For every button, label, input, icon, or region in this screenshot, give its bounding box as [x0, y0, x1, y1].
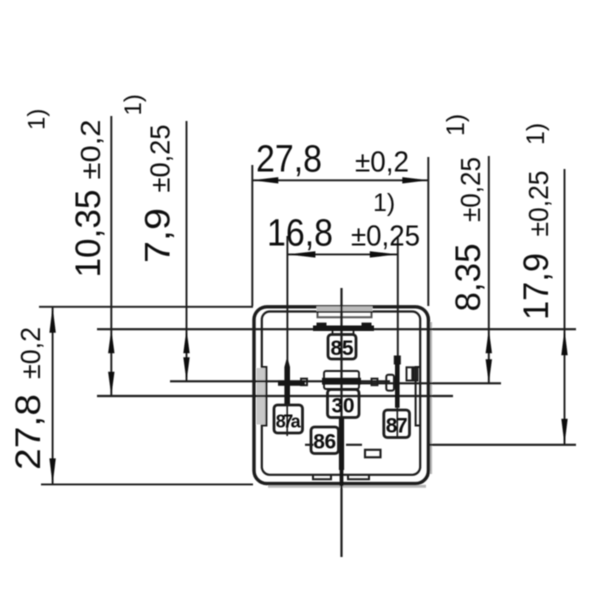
dim 17,9: up arrow	[561, 329, 567, 355]
terminal 87 small rect a	[407, 367, 413, 380]
terminal 87a label box	[274, 405, 303, 433]
dim 16,8: left extension line	[286, 236, 288, 361]
horizontal centerline y=396 (10,35)	[97, 395, 453, 397]
terminal 85 bar right tab	[362, 323, 372, 327]
terminal 86 blade	[339, 418, 344, 471]
horizontal reference line y=329 (85 blade line)	[97, 328, 576, 330]
svg-text:±0,25: ±0,25	[523, 171, 554, 237]
dim 16,8: dimension line	[287, 253, 397, 255]
vertical centerline	[340, 288, 342, 557]
dim 10,35: down arrow	[108, 372, 114, 396]
terminal 85 bar left tab	[317, 323, 327, 327]
dim 27,8 left: top extension line	[39, 306, 253, 308]
dim 7,9: up arrow	[183, 329, 189, 353]
dim 27,8 left: dimension line	[52, 307, 54, 485]
terminal 85 box connector right	[353, 331, 355, 335]
terminal 87a blade stem	[286, 405, 288, 437]
svg-text:8,35: 8,35	[449, 244, 488, 312]
svg-text:87a: 87a	[276, 412, 302, 432]
terminal 85 box connector left	[332, 331, 334, 335]
svg-text:27,8: 27,8	[9, 394, 48, 470]
svg-text:±0,25: ±0,25	[145, 125, 176, 193]
terminal 86 label box	[311, 427, 339, 454]
dim 7,9: down arrow	[183, 357, 189, 381]
dim 7,9: dimension line	[186, 121, 188, 381]
terminal 86 small rect	[365, 450, 381, 458]
terminal 87a slot bar	[278, 380, 305, 385]
dim 27,8 left: down arrow	[49, 458, 55, 484]
dim 10,35: dimension line	[110, 116, 112, 396]
svg-text:85: 85	[331, 337, 354, 360]
dim 8,35: up arrow	[486, 329, 492, 353]
terminal 30 left square	[301, 379, 307, 386]
svg-text:±0,2: ±0,2	[75, 120, 106, 180]
horizontal reference line y=444.8 stub mid	[346, 444, 362, 446]
terminal 87a blade	[284, 357, 290, 405]
svg-text:±0,2: ±0,2	[355, 147, 409, 179]
svg-text:87: 87	[386, 415, 408, 438]
dim 27,8 top: dimension line	[252, 179, 428, 181]
svg-text:86: 86	[313, 431, 336, 454]
dim 27,8 top: right extension line	[427, 157, 429, 306]
terminal 87 side box	[386, 375, 394, 391]
svg-text:27,8: 27,8	[256, 139, 322, 181]
svg-text:1): 1)	[120, 94, 147, 115]
dim 16,8: right arrow	[370, 251, 398, 257]
svg-text:±0,2: ±0,2	[15, 327, 46, 379]
svg-text:1): 1)	[522, 123, 550, 145]
relay body inner case line	[262, 312, 420, 475]
dim 17,9: down arrow	[561, 419, 567, 445]
dim 8,35: dimension line	[488, 156, 490, 383]
dim 8,35: down arrow	[486, 359, 492, 383]
terminal 87 blade stem	[396, 408, 398, 438]
svg-text:1): 1)	[373, 189, 395, 217]
horizontal reference line y=383 (8,35)	[338, 382, 501, 384]
dim 10,35: up arrow	[108, 329, 114, 353]
relay body shadow right	[429, 322, 432, 474]
terminal 85 label box	[328, 335, 356, 360]
svg-text:10,35: 10,35	[69, 190, 108, 278]
terminal 87 blade	[395, 357, 400, 408]
relay body shadow bottom	[268, 485, 426, 488]
dim 16,8: right extension line	[397, 236, 399, 356]
bottom edge recess	[313, 475, 331, 479]
top edge recess shading	[317, 306, 373, 311]
terminal 30 blade bar	[322, 378, 361, 385]
svg-text:17,9: 17,9	[517, 253, 556, 320]
horizontal reference line y=381 (7,9)	[170, 380, 390, 382]
dim 17,9: dimension line	[564, 169, 566, 445]
svg-text:±0,25: ±0,25	[351, 221, 420, 253]
svg-text:16,8: 16,8	[267, 213, 333, 255]
terminal 30 right square	[372, 379, 378, 386]
svg-text:30: 30	[332, 395, 355, 418]
dim 27,8 left: bottom extension line	[41, 483, 253, 485]
terminal 30 slot outline	[324, 371, 359, 389]
dim 16,8: left arrow	[287, 251, 315, 257]
horizontal reference line y=444.8 stub left	[305, 444, 314, 446]
relay body outer case	[254, 307, 428, 484]
terminal 30 label box	[328, 390, 360, 418]
svg-text:1): 1)	[442, 114, 470, 136]
svg-text:1): 1)	[24, 109, 51, 130]
dim 27,8 top: left extension line	[251, 165, 253, 306]
terminal 85 blade bar	[313, 326, 374, 332]
horizontal reference line y=444.8 right (17,9)	[428, 444, 576, 446]
dim 27,8 top: left arrow	[252, 177, 278, 183]
terminal 87 blade collar	[394, 356, 401, 365]
dim 27,8 top: right arrow	[402, 177, 428, 183]
terminal 87 small rect b	[414, 367, 418, 380]
top edge recess	[318, 312, 372, 318]
terminal 86 blade bottom-edge crossing	[340, 470, 344, 486]
right edge recess	[416, 367, 421, 426]
left edge recess	[262, 367, 267, 426]
left edge recess shading	[257, 368, 266, 425]
dim 27,8 left: up arrow	[49, 307, 55, 333]
terminal 87 label box	[384, 410, 410, 438]
svg-text:7,9: 7,9	[139, 208, 178, 263]
svg-text:±0,25: ±0,25	[455, 157, 486, 222]
